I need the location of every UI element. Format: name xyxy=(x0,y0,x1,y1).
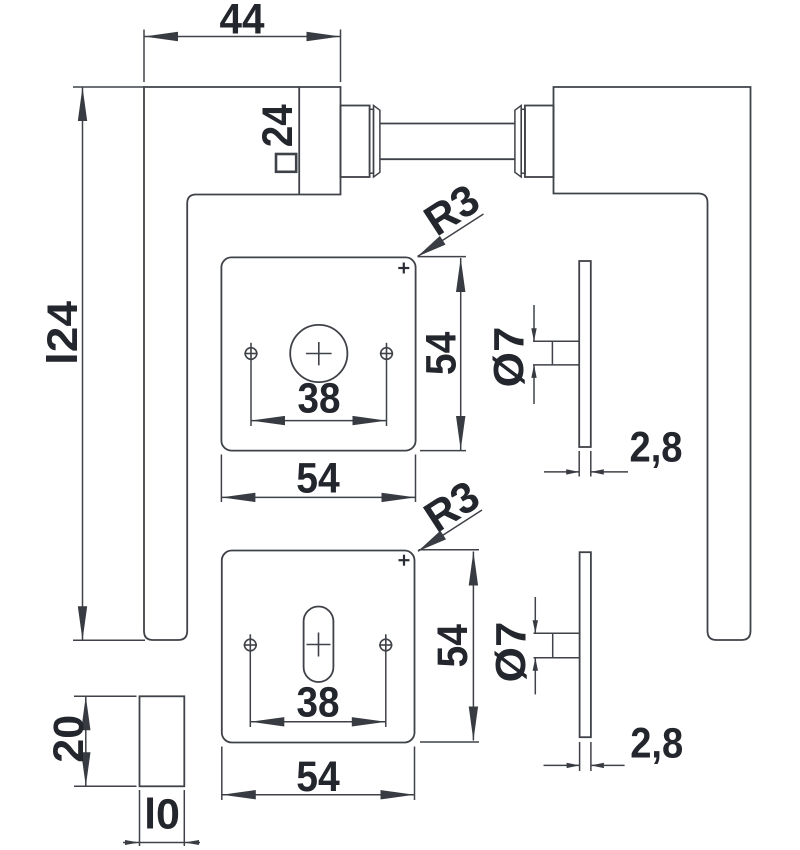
side view 1 plate xyxy=(579,261,591,447)
right neck xyxy=(525,106,554,178)
dimension 10 line xyxy=(123,842,200,844)
rosette 1 center cross xyxy=(306,342,332,365)
label 44 xyxy=(220,0,265,44)
dimension 54 bottom rosette 1 extension lines xyxy=(221,455,415,503)
dimension 38 rosette 2 extension lines xyxy=(250,652,385,727)
left handle bearing separator line xyxy=(298,87,300,195)
svg-text:l0: l0 xyxy=(144,791,180,839)
left handle outline xyxy=(144,87,341,640)
left neck xyxy=(341,106,370,178)
side view 2 stem xyxy=(534,633,580,657)
dimension 20 extension lines xyxy=(74,696,137,786)
label 2,8 side view 2 xyxy=(630,719,683,767)
svg-text:38: 38 xyxy=(297,679,340,727)
svg-text:R3: R3 xyxy=(416,175,488,245)
label 54 bottom rosette 2 xyxy=(296,753,340,801)
svg-text:2,8: 2,8 xyxy=(630,719,683,767)
svg-text:38: 38 xyxy=(298,375,341,423)
svg-text:54: 54 xyxy=(296,753,340,801)
dimension 54 bottom rosette 1 line xyxy=(221,496,415,498)
label 54 right rosette 1 xyxy=(417,332,465,376)
label 20 xyxy=(45,715,93,763)
dimension 10 extension lines xyxy=(140,790,185,846)
label 2,8 side view 1 xyxy=(630,424,683,472)
rosette 2 cylinder hole xyxy=(304,607,334,683)
dimension 54 right rosette 2 line xyxy=(472,552,474,741)
dimension diameter 7 side view 2 arrows xyxy=(534,597,536,694)
right collar strip xyxy=(521,109,525,173)
dimension 44 line xyxy=(144,36,341,38)
small section rectangle 20x10 xyxy=(140,696,185,786)
rosette 1 right screw hole xyxy=(380,343,393,361)
rosette 1 left screw hole xyxy=(244,343,257,361)
dimension 44 extension lines xyxy=(144,30,341,83)
right handle outline xyxy=(554,87,751,640)
dimension 20 line xyxy=(85,696,87,786)
dimension 54 bottom rosette 2 extension lines xyxy=(222,747,415,801)
rosette 1 corner plus mark xyxy=(398,263,409,274)
side view 2 plate xyxy=(580,552,591,737)
svg-text:24: 24 xyxy=(254,104,302,147)
dimension 54 right rosette 1 extension lines xyxy=(418,257,467,451)
label 38 rosette 2 xyxy=(297,679,340,727)
dimension 2,8 side view 2 arrows xyxy=(544,764,625,766)
rosette 2 right screw hole xyxy=(379,634,392,652)
label 54 bottom rosette 1 xyxy=(296,455,340,503)
left collar strip xyxy=(370,109,374,173)
left collar flange xyxy=(374,106,380,178)
dimension 38 rosette 1 line xyxy=(251,420,387,422)
label 24 of square spindle xyxy=(254,104,302,147)
svg-text:Ø7: Ø7 xyxy=(488,622,536,683)
rosette 1 center hole circle xyxy=(290,325,347,382)
dimension 54 right rosette 2 extension lines xyxy=(419,550,480,742)
svg-text:2,8: 2,8 xyxy=(630,424,683,472)
svg-text:20: 20 xyxy=(45,715,93,763)
radius leader R3 rosette 2 xyxy=(418,510,482,551)
svg-text:R3: R3 xyxy=(416,472,488,542)
square spindle symbol of label 24 xyxy=(276,154,296,172)
dimension 2,8 side view 2 extension lines xyxy=(580,742,591,771)
label diameter 7 side view 2 xyxy=(488,622,536,683)
dimension 54 bottom rosette 2 line xyxy=(222,794,415,796)
rosette 1 plate xyxy=(221,257,415,450)
label 38 rosette 1 xyxy=(298,375,341,423)
svg-text:l24: l24 xyxy=(39,301,87,365)
rosette 2 left screw hole xyxy=(244,634,257,652)
dimension 38 rosette 2 line xyxy=(250,721,385,723)
label 54 right rosette 2 xyxy=(429,624,477,668)
dimension 2,8 side view 1 arrows xyxy=(544,471,628,473)
dimension 38 rosette 1 extension lines xyxy=(251,361,387,427)
radius leader R3 rosette 1 xyxy=(418,214,484,257)
dimension 10 arrowheads xyxy=(125,840,199,845)
svg-text:44: 44 xyxy=(220,0,265,44)
dimension 2,8 side view 1 extension lines xyxy=(579,451,591,477)
right collar flange xyxy=(515,106,521,178)
spindle bar xyxy=(380,124,515,160)
label R3 rosette 2 xyxy=(416,472,488,542)
rosette 2 cylinder cross xyxy=(307,633,331,657)
dimension 54 right rosette 1 line xyxy=(460,258,462,450)
svg-text:Ø7: Ø7 xyxy=(486,327,534,388)
side view 1 stem xyxy=(533,341,579,365)
rosette 2 plate xyxy=(222,551,415,743)
label diameter 7 side view 1 xyxy=(486,327,534,388)
svg-text:54: 54 xyxy=(417,332,465,376)
svg-text:54: 54 xyxy=(296,455,340,503)
label R3 rosette 1 xyxy=(416,175,488,245)
dimension 124 line xyxy=(82,87,84,640)
dimension diameter 7 side view 1 arrows xyxy=(533,305,535,404)
rosette 2 corner plus mark xyxy=(399,555,410,566)
label 10 xyxy=(144,791,180,839)
dimension 124 extension lines xyxy=(73,87,145,640)
label 124 xyxy=(39,301,87,365)
svg-text:54: 54 xyxy=(429,624,477,668)
